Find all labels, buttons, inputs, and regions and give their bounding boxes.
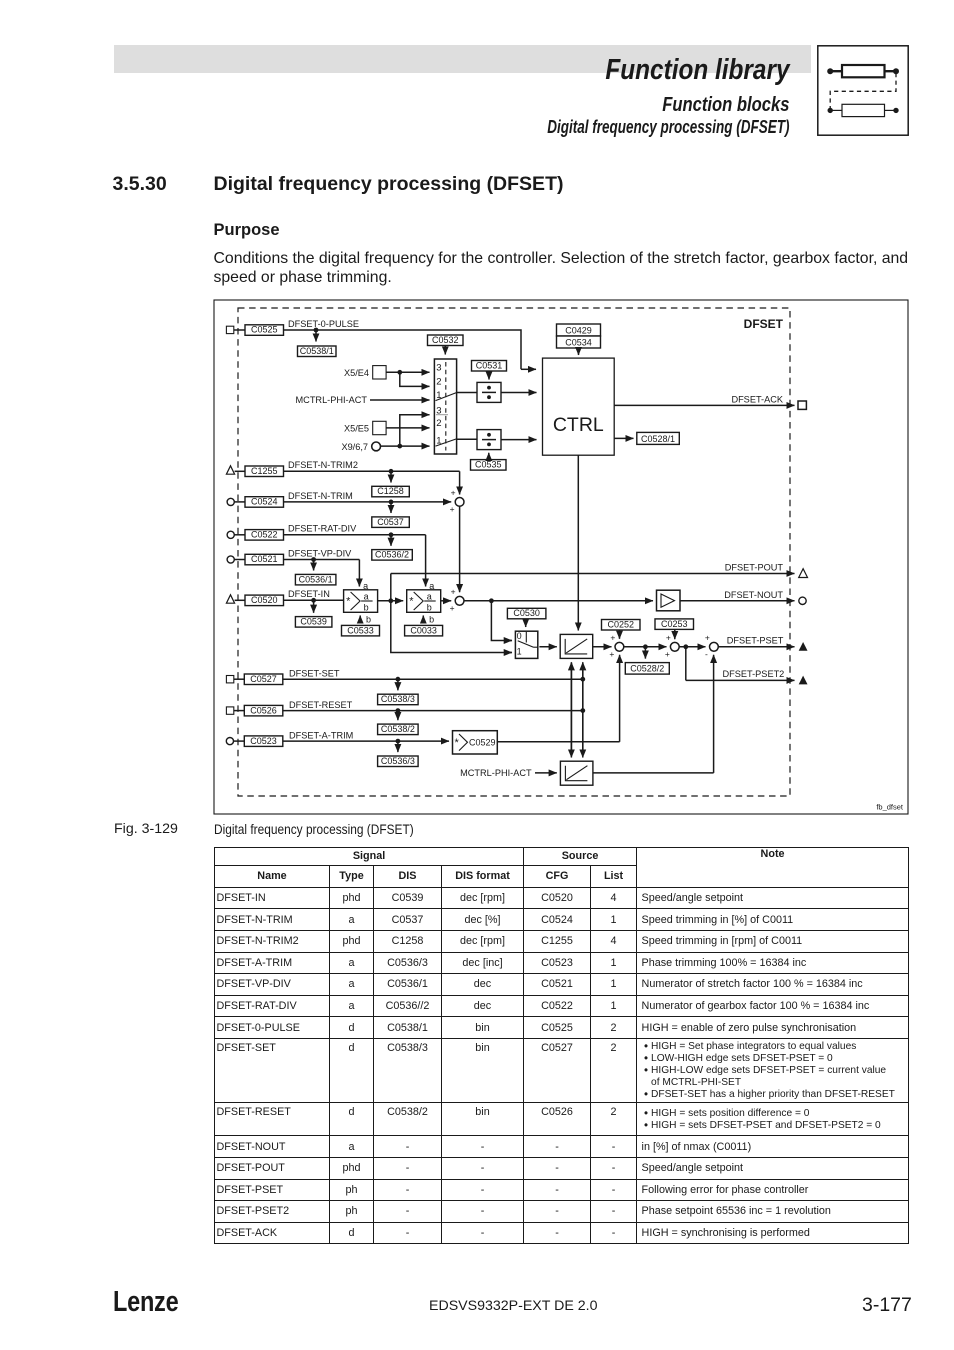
- code box C0429: [557, 324, 601, 336]
- header grey bar: [114, 45, 811, 73]
- svg-text:C0520: C0520: [251, 595, 278, 605]
- svg-text:C0538/1: C0538/1: [300, 346, 334, 356]
- wire DFSET-SET: [283, 678, 583, 680]
- svg-text:C0537: C0537: [377, 517, 404, 527]
- signal label DFSET-PSET: [727, 635, 784, 645]
- wire MCTRL-PHI-ACT to selector input 1: [370, 399, 430, 401]
- arrow C0253 to adder 4: [674, 629, 676, 639]
- svg-text:1: 1: [517, 646, 522, 656]
- svg-text:DFSET-PSET2: DFSET-PSET2: [723, 669, 785, 679]
- footer document id: [429, 1299, 598, 1313]
- wire divider 1 to CTRL: [501, 392, 537, 394]
- icon frame: [818, 46, 908, 135]
- svg-text:X5/E5: X5/E5: [344, 424, 369, 434]
- svg-text:DFSET-A-TRIM: DFSET-A-TRIM: [289, 730, 353, 740]
- svg-text:+: +: [450, 504, 455, 514]
- code box C0527: [244, 674, 282, 685]
- code box C0253: [655, 619, 694, 630]
- wire CTRL to integrator: [577, 455, 579, 630]
- adder 4: [665, 633, 679, 659]
- junction on DFSET-0-PULSE: [314, 328, 319, 333]
- arrow to C0528/2: [644, 647, 646, 659]
- input pad C0523 (analog circle): [226, 738, 244, 745]
- junction adder 2 output: [489, 598, 494, 603]
- svg-text:*: *: [455, 737, 460, 749]
- svg-text:b: b: [366, 615, 371, 625]
- integrator 1 (phase): [560, 634, 593, 658]
- wire DFSET-IN to multiplier 1: [284, 599, 344, 601]
- wire branch up to DFSET-POUT: [390, 574, 392, 601]
- input pad C0525 (digital square): [226, 326, 245, 333]
- fb_dfset tag: [876, 803, 904, 812]
- wire multiplier 1 to multiplier 2: [378, 600, 404, 602]
- junction DFSET-N-TRIM2: [389, 469, 394, 474]
- header subtitle Function blocks: [134, 95, 789, 115]
- svg-text:b: b: [364, 602, 369, 612]
- svg-text:CTRL: CTRL: [553, 414, 604, 436]
- signal label DFSET-NOUT: [724, 590, 783, 600]
- arrow to C1258: [390, 471, 392, 482]
- svg-text:C0253: C0253: [661, 619, 688, 629]
- svg-text:*: *: [409, 595, 414, 607]
- wire X5/E5 to selector input 2b: [386, 427, 429, 429]
- svg-text:X9/6,7: X9/6,7: [341, 442, 368, 452]
- wire adder 1 to adder 2: [459, 506, 461, 592]
- code box C0538/2: [378, 724, 419, 735]
- svg-text:C0252: C0252: [607, 619, 634, 629]
- svg-text:C0534: C0534: [565, 337, 592, 347]
- svg-text:DFSET-IN: DFSET-IN: [288, 589, 330, 599]
- footer logo Lenze: [113, 1288, 178, 1317]
- code box C0531: [472, 360, 507, 371]
- wire multiplier 2 to adder 2: [441, 600, 452, 602]
- code box C0536/3: [378, 756, 419, 767]
- junction DFSET-A-TRIM: [396, 739, 401, 744]
- arrow C0532 to selector: [444, 346, 446, 355]
- wire adder 3 to adder 4: [624, 646, 667, 648]
- svg-text:*: *: [346, 595, 351, 607]
- code box C0521: [245, 554, 284, 565]
- input pad C0522 (analog circle): [227, 531, 245, 538]
- arrow CTRL to C0528/1: [614, 437, 633, 439]
- svg-text:DFSET-SET: DFSET-SET: [289, 668, 340, 678]
- code box C0536/2: [372, 550, 413, 561]
- code box C0536/1: [295, 574, 336, 585]
- junction DFSET-RAT-DIV: [389, 532, 394, 537]
- signal label DFSET-RAT-DIV: [288, 524, 357, 534]
- figure caption: [114, 822, 178, 836]
- icon top block (bold): [827, 65, 899, 77]
- wire DFSET-0-PULSE to CTRL: [284, 330, 537, 369]
- wire DFSET-PSET: [718, 646, 794, 648]
- svg-text:+: +: [451, 488, 456, 498]
- arrow to C0538/2: [397, 711, 399, 721]
- code box C0523: [244, 736, 282, 747]
- junction X5/E4 branch: [397, 370, 402, 375]
- code box C0252: [602, 619, 641, 630]
- code box C0530: [507, 608, 546, 619]
- svg-text:C0536/2: C0536/2: [375, 550, 409, 560]
- DFSET block title: [744, 317, 784, 331]
- wire selector to divider 2: [457, 438, 477, 440]
- switch block 0/1 (C0530): [515, 631, 537, 658]
- svg-text:C0523: C0523: [250, 736, 277, 746]
- signal label DFSET-N-TRIM2: [288, 460, 358, 470]
- wire adder 2 branch to switch: [491, 601, 512, 641]
- svg-text:2: 2: [436, 418, 441, 429]
- svg-text:b: b: [429, 615, 434, 625]
- icon dashed connection: [830, 73, 896, 108]
- code box C1258: [372, 486, 410, 497]
- footer page number: [862, 1296, 912, 1316]
- divider block 1: [477, 382, 501, 402]
- svg-text:+: +: [609, 649, 614, 659]
- wire adder 2 to amplifier: [464, 600, 653, 602]
- wire X9/6,7 to selector input 1b: [381, 445, 430, 447]
- svg-text:C0530: C0530: [513, 608, 540, 618]
- signal label DFSET-SET: [289, 668, 340, 678]
- svg-text:C0521: C0521: [251, 554, 278, 564]
- signal table: [214, 847, 909, 1244]
- code box C0525: [245, 325, 284, 336]
- svg-text:C0538/3: C0538/3: [381, 694, 415, 704]
- wire integrator 1 to adder 3: [593, 646, 612, 648]
- divider block 2: [477, 430, 501, 450]
- wire DFSET-VP-DIV to multiplier 1: [284, 560, 360, 587]
- wire integrator 1 to integrator 2 (right): [582, 662, 584, 757]
- junction DFSET-IN: [311, 598, 316, 603]
- multiplier block C0529 (phase trim): [453, 731, 498, 754]
- wire DFSET-ACK: [614, 404, 794, 406]
- wire to selector input 3b: [400, 415, 430, 446]
- junction adder 4 output: [683, 644, 688, 649]
- signal label DFSET-N-TRIM: [288, 491, 353, 501]
- svg-text:-: -: [705, 649, 708, 659]
- wire DFSET-PSET2: [686, 647, 795, 681]
- svg-text:C0538/2: C0538/2: [381, 724, 415, 734]
- terminal X9/6,7: [341, 442, 380, 452]
- code box C0534: [557, 336, 601, 348]
- code box C0524: [245, 497, 284, 508]
- body paragraph: [214, 249, 934, 288]
- arrow C0535 to divider 2: [488, 453, 490, 460]
- adder 2 (speed sum): [450, 587, 464, 613]
- svg-text:+: +: [451, 587, 456, 597]
- wire DFSET-RESET: [283, 710, 583, 712]
- svg-text:C0429: C0429: [565, 325, 592, 335]
- arrow C0530 to switch: [525, 619, 527, 627]
- signal label DFSET-0-PULSE: [288, 319, 359, 329]
- wire DFSET-NOUT: [680, 600, 795, 602]
- svg-text:DFSET-N-TRIM: DFSET-N-TRIM: [288, 491, 353, 501]
- input pad C0527 (square): [226, 676, 244, 683]
- junction X9/6,7 branch: [397, 444, 402, 449]
- svg-text:C0524: C0524: [251, 497, 278, 507]
- wire DFSET-N-TRIM to adder 1: [284, 501, 452, 503]
- junction DFSET-SET at integrator line: [580, 677, 585, 682]
- wire selector to divider 1: [457, 392, 477, 394]
- output pad DFSET-PSET2 (filled triangle): [799, 676, 808, 685]
- output pad DFSET-PSET (filled triangle): [799, 642, 808, 651]
- svg-text:DFSET-NOUT: DFSET-NOUT: [724, 590, 783, 600]
- code box C0539: [295, 617, 332, 628]
- arrow to C0537: [390, 502, 392, 513]
- code box C0538/3: [378, 694, 419, 705]
- arrow to C0538/1: [315, 330, 317, 342]
- svg-text:0: 0: [517, 631, 522, 641]
- arrow b input multiplier 1: [360, 615, 371, 625]
- selector block (signal source switch): [434, 359, 456, 454]
- wire X5/E4 to selector input 2: [400, 372, 430, 386]
- svg-text:+: +: [705, 633, 710, 643]
- svg-text:C0526: C0526: [250, 705, 277, 715]
- label a at multiplier 1: [363, 581, 368, 591]
- svg-text:C0539: C0539: [300, 617, 327, 627]
- junction after multiplier 1: [388, 598, 393, 603]
- wire DFSET-N-TRIM2 to adder 1: [284, 471, 460, 494]
- code box C0033: [405, 625, 443, 636]
- section heading: [214, 175, 564, 195]
- terminal X5/E5: [344, 421, 386, 434]
- code box C0520: [245, 595, 284, 606]
- header function-block icon: [817, 45, 909, 136]
- svg-text:C0528/2: C0528/2: [630, 664, 664, 674]
- svg-text:+: +: [665, 649, 670, 659]
- svg-text:C0531: C0531: [476, 360, 503, 370]
- CTRL block: [543, 358, 615, 455]
- junction DFSET-VP-DIV: [311, 557, 316, 562]
- svg-text:MCTRL-PHI-ACT: MCTRL-PHI-ACT: [296, 395, 368, 405]
- svg-text:+: +: [666, 633, 671, 643]
- wire divider 2 to CTRL: [501, 439, 537, 441]
- svg-text:C0533: C0533: [347, 625, 374, 635]
- arrow C0252 to adder 3: [619, 630, 621, 639]
- signal label DFSET-RESET: [289, 700, 353, 710]
- arrow to C0536/1: [313, 560, 315, 571]
- input pad C0520 (phd triangle): [226, 595, 245, 603]
- signal label MCTRL-PHI-ACT: [296, 395, 368, 405]
- code box C0522: [245, 530, 284, 541]
- Purpose subheading: [214, 222, 280, 239]
- input pad C0526 (square): [226, 707, 244, 714]
- code box C0532: [428, 335, 464, 346]
- svg-text:DFSET-RAT-DIV: DFSET-RAT-DIV: [288, 524, 357, 534]
- svg-text:fb_dfset: fb_dfset: [876, 803, 904, 812]
- code box C0537: [372, 517, 410, 528]
- output pad DFSET-NOUT (circle): [799, 597, 806, 604]
- svg-text:DFSET-PSET: DFSET-PSET: [727, 635, 784, 645]
- signal label DFSET-POUT: [725, 563, 784, 573]
- svg-text:DFSET: DFSET: [744, 317, 784, 331]
- arrow to C0536/3: [397, 741, 399, 752]
- code box C0528/2: [625, 663, 669, 675]
- arrow C0429/C0534 to CTRL: [578, 348, 580, 355]
- signal label DFSET-IN: [288, 589, 330, 599]
- figure frame: [214, 300, 908, 814]
- junction DFSET-N-TRIM: [389, 500, 394, 505]
- svg-text:a: a: [364, 591, 369, 601]
- svg-text:+: +: [610, 633, 615, 643]
- svg-text:C0536/3: C0536/3: [381, 756, 415, 766]
- adder 3: [609, 633, 623, 659]
- svg-text:DFSET-ACK: DFSET-ACK: [731, 395, 783, 405]
- icon bottom block: [828, 104, 899, 116]
- wire branch down to switch: [391, 601, 512, 653]
- code box C0528/1: [637, 432, 680, 444]
- svg-text:DFSET-N-TRIM2: DFSET-N-TRIM2: [288, 460, 358, 470]
- header subtitle chapter: [197, 118, 789, 136]
- stub in selector input 3b: [436, 414, 448, 416]
- code box C0526: [244, 705, 282, 716]
- wire DFSET-RAT-DIV to multiplier 2: [284, 535, 426, 587]
- svg-text:C1255: C1255: [251, 466, 278, 476]
- signal label MCTRL-PHI-ACT (bottom): [460, 768, 532, 778]
- output pad DFSET-ACK (square): [798, 401, 806, 409]
- svg-text:C0536/1: C0536/1: [299, 574, 333, 584]
- arrow C0531 to divider 1: [488, 371, 490, 380]
- wire integrator 2 to adder 5: [593, 655, 714, 773]
- signal label DFSET-PSET2: [723, 669, 785, 679]
- wire adder 4 to adder 5: [679, 646, 705, 648]
- amplifier block DFSET-NOUT: [657, 590, 681, 611]
- integrator 2 (MCTRL phase): [560, 761, 593, 785]
- wire integrator 1 to integrator 2 (left): [570, 662, 572, 757]
- svg-text:X5/E4: X5/E4: [344, 368, 369, 378]
- signal label DFSET-ACK: [731, 395, 783, 405]
- svg-text:C0527: C0527: [250, 674, 277, 684]
- input pad C0521 (analog circle): [227, 556, 245, 563]
- output pad DFSET-POUT (phd triangle): [799, 569, 808, 578]
- arrow to C0538/3: [397, 679, 399, 690]
- signal label DFSET-A-TRIM: [289, 730, 353, 740]
- svg-text:C0532: C0532: [432, 335, 459, 345]
- arrow to C0539: [313, 600, 315, 613]
- junction DFSET-SET: [396, 677, 401, 682]
- svg-text:C0535: C0535: [475, 460, 502, 470]
- wire DFSET-POUT: [391, 573, 795, 575]
- svg-text:2: 2: [436, 377, 441, 388]
- input pad C0524 (analog circle): [227, 498, 245, 505]
- multiplier 2 (gearbox factor): [407, 590, 441, 613]
- wire switch to integrator 1: [539, 646, 556, 648]
- svg-text:C0525: C0525: [251, 325, 278, 335]
- wire C0529 to adder 3: [497, 655, 619, 742]
- header title Function library: [126, 56, 789, 85]
- svg-text:3: 3: [436, 362, 441, 373]
- section number: [113, 175, 167, 195]
- svg-text:C0528/1: C0528/1: [641, 434, 675, 444]
- svg-text:b: b: [427, 602, 432, 612]
- multiplier 1 (stretch factor): [344, 590, 378, 613]
- svg-text:C0522: C0522: [251, 530, 278, 540]
- svg-text:C0529: C0529: [469, 738, 496, 748]
- adder 1 (speed trim): [450, 488, 464, 514]
- junction DFSET-RESET at integrator line: [580, 708, 585, 713]
- svg-text:MCTRL-PHI-ACT: MCTRL-PHI-ACT: [460, 768, 532, 778]
- junction adder 3 output: [643, 644, 648, 649]
- label a at multiplier 2: [429, 581, 434, 591]
- svg-text:DFSET-0-PULSE: DFSET-0-PULSE: [288, 319, 359, 329]
- code box C0538/1: [298, 346, 337, 357]
- wire DFSET-A-TRIM to C0529 multiplier: [283, 740, 449, 742]
- terminal X5/E4: [344, 366, 386, 379]
- adder 5: [705, 633, 718, 659]
- svg-text:DFSET-RESET: DFSET-RESET: [289, 700, 353, 710]
- junction DFSET-RESET: [396, 708, 401, 713]
- svg-text:DFSET-VP-DIV: DFSET-VP-DIV: [288, 548, 352, 558]
- input pad C1255 (phd triangle): [226, 466, 245, 474]
- code box C1255: [245, 466, 284, 477]
- signal label DFSET-VP-DIV: [288, 548, 352, 558]
- svg-text:C0033: C0033: [410, 625, 437, 635]
- svg-text:DFSET-POUT: DFSET-POUT: [725, 563, 784, 573]
- svg-text:+: +: [450, 603, 455, 613]
- code box C0533: [342, 625, 380, 636]
- svg-text:C1258: C1258: [377, 486, 404, 496]
- arrow MCTRL-PHI-ACT to integrator 2: [535, 772, 557, 774]
- svg-text:a: a: [427, 591, 432, 601]
- arrow b input multiplier 2: [423, 615, 434, 625]
- DFSET block dashed border: [238, 308, 790, 796]
- arrow to C0536/2: [390, 535, 392, 546]
- wire X5/E4 to selector input 3: [386, 371, 429, 373]
- code box C0535: [471, 460, 507, 471]
